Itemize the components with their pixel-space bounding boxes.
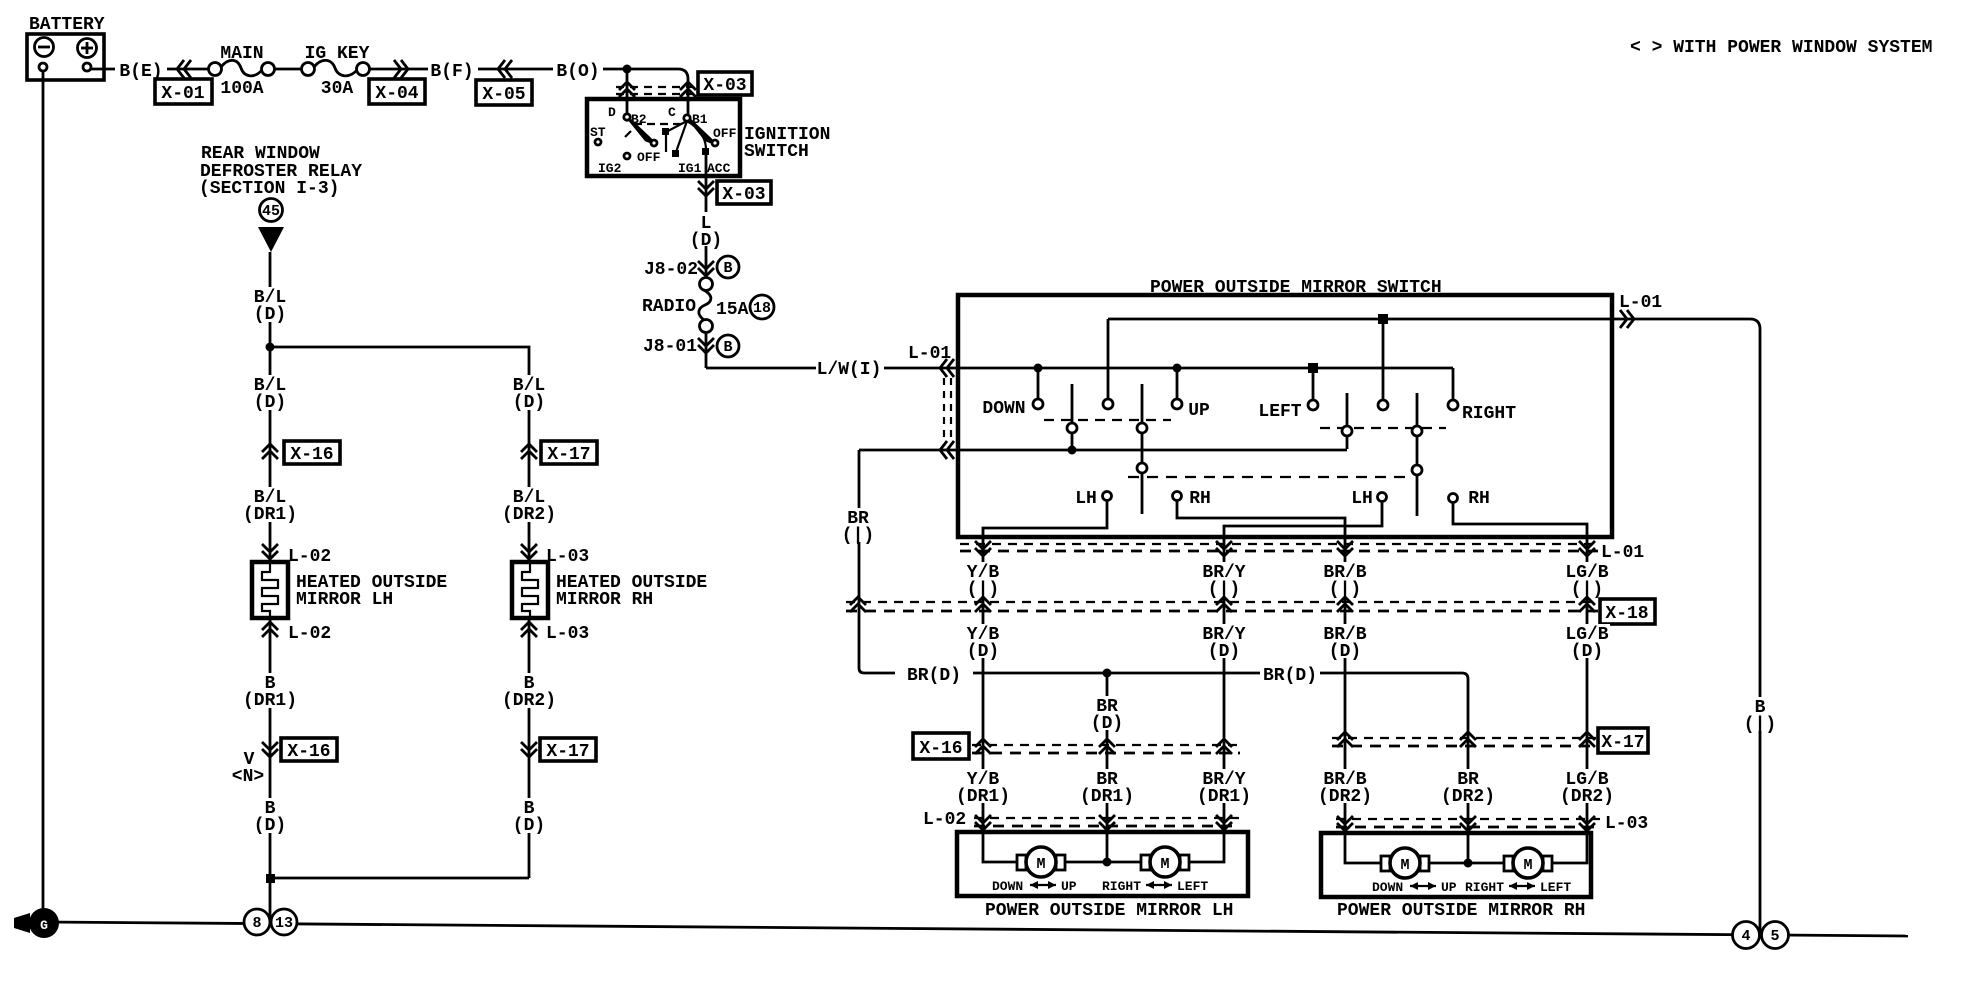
label LG/B (DR2) [1560,769,1615,807]
wire mid contact drop 2 [1382,319,1385,399]
node RH motor junction [1464,859,1473,868]
node ground circle 4 [1733,922,1760,949]
wire B/L left column [269,252,272,562]
svg-text:(|): (|) [1744,715,1776,735]
connector X-18 [846,597,1655,624]
svg-text:LH: LH [1351,489,1373,509]
svg-text:(D): (D) [513,816,545,836]
svg-text:POWER OUTSIDE MIRROR RH: POWER OUTSIDE MIRROR RH [1337,901,1585,921]
svg-text:C: C [668,105,676,120]
svg-text:L/W(I): L/W(I) [817,360,882,380]
svg-text:(DR2): (DR2) [502,691,556,711]
label BR(D) left [895,663,973,686]
label B(F) [428,57,478,82]
svg-text:(DR2): (DR2) [502,505,556,525]
svg-text:MIRROR RH: MIRROR RH [556,590,653,610]
label BR/B (DR2) [1318,769,1373,807]
label LG/B (I) [1565,562,1610,600]
motor M2 RH horizontal [1504,848,1552,878]
svg-text:OFF: OFF [637,150,661,165]
svg-text:100A: 100A [220,79,263,99]
svg-text:BR(D): BR(D) [907,666,961,686]
wire RH1 to BR/B column [1177,500,1381,863]
node LH motor junction [1103,858,1112,867]
selector pole LR-LH [1346,393,1349,449]
connector X-03 bottom [698,181,771,205]
svg-text:POWER OUTSIDE MIRROR LH: POWER OUTSIDE MIRROR LH [985,901,1233,921]
wire ignition D branch [626,69,629,113]
svg-text:(DR2): (DR2) [1441,787,1495,807]
label B/L (D) right [509,375,549,413]
label BR (D) column [1091,696,1123,734]
connector X-03 top [616,72,752,97]
connector X-17 switch side [1332,728,1648,753]
svg-text:MIRROR LH: MIRROR LH [296,590,393,610]
svg-text:L-02: L-02 [288,624,331,644]
svg-text:45: 45 [262,203,280,220]
svg-text:REAR WINDOW: REAR WINDOW [201,144,320,164]
svg-text:(D): (D) [1571,642,1603,662]
svg-text:(D): (D) [690,231,722,251]
svg-text:B(O): B(O) [556,62,599,82]
power outside mirror LH box [957,832,1248,896]
mechanical link left-right [1320,427,1446,429]
label B (DR1) [242,673,298,711]
svg-text:B: B [723,260,732,277]
svg-text:X-17: X-17 [547,445,590,465]
node top feed junction [623,65,632,74]
node top bus junction [1378,314,1388,324]
label B (DR2) [501,673,557,711]
label RIGHT-LEFT LH [1102,879,1208,894]
label L/W(I) [816,357,884,380]
label LG/B (D) [1565,624,1610,662]
power outside mirror RH box [1321,833,1591,897]
node bottom merge junction [266,874,275,883]
node B/L branch junction [266,343,275,352]
rear window defroster relay reference [199,144,362,252]
heated outside mirror LH [252,562,447,618]
svg-text:M: M [1160,856,1169,873]
wire switch top bus to L-01 right exit [1108,319,1760,936]
wire RH2 to LG/B column [1453,502,1587,863]
svg-text:B: B [723,339,732,356]
wire LH motors link [1065,861,1141,864]
wire BR column LH [1106,673,1109,862]
label BR (DR1) [1080,769,1135,807]
label BR (I) [842,508,876,546]
svg-text:X-16: X-16 [919,739,962,759]
wire switch main bus L/W [958,367,1453,370]
node BR(D) junction [1103,669,1112,678]
label BR/Y (DR1) [1197,769,1252,807]
mechanical link LH-RH selector [1128,476,1412,478]
svg-text:X-04: X-04 [375,84,418,104]
svg-text:LEFT: LEFT [1258,402,1301,422]
svg-text:13: 13 [275,915,293,932]
label DOWN-UP LH [992,879,1077,894]
fuse RADIO 15A [642,278,774,333]
wire mid contact drop 1 [1107,319,1110,398]
wire B/L branch to RH column [270,347,529,562]
svg-text:(DR2): (DR2) [1560,787,1614,807]
svg-text:LH: LH [1075,489,1097,509]
svg-text:4: 4 [1741,928,1750,945]
svg-text:X-03: X-03 [722,185,765,205]
svg-text:IG KEY: IG KEY [305,44,370,64]
svg-text:X-01: X-01 [161,84,204,104]
label B (D) left [250,798,290,836]
svg-text:LEFT: LEFT [1177,879,1208,894]
connector X-17 lower [521,738,596,762]
svg-text:L-01: L-01 [1601,543,1644,563]
svg-text:8: 8 [252,915,261,932]
switch contacts upper row [1033,399,1043,409]
svg-text:BATTERY: BATTERY [29,15,105,35]
connector X-05 [476,60,532,105]
svg-text:J8-01: J8-01 [643,337,697,357]
selector pole UD-RH [1141,384,1144,514]
connector X-01 [155,60,212,104]
label BR (DR2) [1441,769,1496,807]
svg-text:(D): (D) [254,393,286,413]
svg-text:SWITCH: SWITCH [744,142,809,162]
svg-text:L-02: L-02 [923,810,966,830]
label B (D) right [509,798,549,836]
wire UP contact drop [1176,368,1179,398]
svg-text:(DR1): (DR1) [243,505,297,525]
label B/L (DR2) [501,487,557,525]
connector L-01 top right [1619,293,1662,328]
svg-text:RH: RH [1468,489,1490,509]
svg-text:BR(D): BR(D) [1263,666,1317,686]
node ground circle 5 [1762,922,1789,949]
node UP junction [1173,364,1182,373]
wire RIGHT contact drop [1452,368,1455,399]
connector X-17 upper [521,441,597,465]
svg-text:OFF: OFF [713,126,737,141]
power outside mirror switch box [958,278,1612,537]
connector L-02 motor side [923,810,1240,830]
fuse MAIN 100A [209,44,275,99]
label BR/B (D) [1323,624,1368,662]
junction block J8-01 [643,335,739,357]
svg-text:(D): (D) [1208,642,1240,662]
connector X-16 upper [262,441,340,465]
svg-text:X-03: X-03 [703,76,746,96]
label B(O) [553,57,603,82]
wire ignition switch output L(D) [705,155,708,368]
label BR/B (I) [1323,562,1368,600]
svg-text:X-16: X-16 [287,742,330,762]
svg-text:RH: RH [1189,489,1211,509]
label B/L (D) left [250,375,290,413]
heated outside mirror RH [512,562,707,618]
label L (D) [690,212,722,251]
svg-text:< > WITH POWER WINDOW SYSTEM: < > WITH POWER WINDOW SYSTEM [1630,38,1932,58]
label B/L (D) upper [250,287,290,325]
svg-text:G: G [40,918,48,933]
svg-text:DOWN: DOWN [992,879,1023,894]
motor M1 LH vertical [1017,847,1065,877]
svg-text:15A: 15A [716,300,749,320]
connector L-03 motor side [1336,814,1648,834]
svg-text:M: M [1400,857,1409,874]
svg-text:UP: UP [1441,880,1457,895]
svg-text:UP: UP [1061,879,1077,894]
svg-text:M: M [1036,856,1045,873]
svg-text:ACC: ACC [707,161,731,176]
svg-text:LEFT: LEFT [1540,880,1571,895]
node ground circle 13 [271,909,297,935]
wire BR(I) feed from switch [859,450,864,673]
connector X-04 [369,60,425,104]
svg-text:18: 18 [753,300,771,317]
svg-text:DOWN: DOWN [982,399,1025,419]
battery B1 [27,15,105,80]
svg-text:RIGHT: RIGHT [1102,879,1141,894]
connector L-01 below switch [960,541,1647,563]
wire BR feed bus [859,449,1347,452]
svg-text:RIGHT: RIGHT [1462,404,1516,424]
svg-text:30A: 30A [321,79,354,99]
svg-text:IG1: IG1 [678,161,702,176]
switch contacts LH RH row [1103,492,1112,501]
svg-text:X-05: X-05 [482,85,525,105]
svg-text:(D): (D) [254,305,286,325]
svg-text:J8-02: J8-02 [644,260,698,280]
svg-text:D: D [608,105,616,120]
svg-text:M: M [1523,857,1532,874]
wire bottom merge to ground [270,878,529,923]
wire LH2 to BR/Y column [1187,501,1382,862]
svg-text:(SECTION I-3): (SECTION I-3) [199,179,339,199]
mechanical link up-down [1044,419,1171,421]
svg-text:5: 5 [1770,928,1779,945]
svg-text:(DR1): (DR1) [1080,787,1134,807]
svg-text:(|): (|) [842,526,874,546]
label Y/B (DR1) [956,769,1011,807]
svg-text:<N>: <N> [232,767,264,787]
label Y/B (D) [967,624,1000,662]
node BR bus junction [1068,446,1077,455]
wire LEFT contact drop [1312,368,1315,399]
selector pole LR-RH [1416,393,1419,516]
svg-text:(DR1): (DR1) [243,691,297,711]
wire LH1 to Y/B column [983,500,1107,862]
node DOWN junction [1034,364,1043,373]
motor M1 RH vertical [1381,848,1429,878]
ignition switch U1 [587,99,830,176]
svg-text:X-17: X-17 [546,742,589,762]
svg-text:X-17: X-17 [1601,733,1644,753]
motor M2 LH horizontal [1141,847,1189,877]
svg-text:(D): (D) [967,642,999,662]
wire battery negative to ground [42,71,45,910]
ground symbol G [14,908,59,938]
svg-text:(D): (D) [254,816,286,836]
svg-text:L-03: L-03 [546,624,589,644]
svg-text:L-02: L-02 [288,547,331,567]
selector pole UD-LH [1071,384,1074,449]
svg-text:X-18: X-18 [1605,604,1648,624]
label B(E) [115,57,167,82]
label Y/B (I) [967,562,1000,600]
connector L-03 lower [521,622,589,644]
label DOWN-UP RH [1372,880,1457,895]
label BR/Y (D) [1202,624,1247,662]
junction block J8-02 [644,256,739,280]
svg-text:(D): (D) [1091,714,1123,734]
svg-text:UP: UP [1188,401,1210,421]
label RIGHT-LEFT RH [1465,880,1571,895]
svg-text:B(F): B(F) [430,62,473,82]
wire BR(D) bus [864,673,1468,863]
ground bus wire [44,922,1908,936]
label BR/Y (I) [1202,562,1247,600]
label B (I) right [1744,697,1776,735]
svg-text:(D): (D) [513,393,545,413]
connector L-02 upper [262,544,331,567]
svg-text:(DR2): (DR2) [1318,787,1372,807]
svg-text:(D): (D) [1329,642,1361,662]
wire battery positive B(E)/B(F)/B(O) top feed [91,69,688,114]
svg-text:L-01: L-01 [1619,293,1662,313]
fuse IG KEY 30A [302,44,370,99]
label B/L (DR1) [242,487,298,525]
svg-text:X-16: X-16 [290,445,333,465]
wire L/W(I) to mirror switch [706,367,958,370]
svg-text:(DR1): (DR1) [1197,787,1251,807]
node ground circle 8 [244,909,270,935]
svg-text:RIGHT: RIGHT [1465,880,1504,895]
connector X-16 switch side [913,733,1240,759]
svg-text:IG2: IG2 [598,161,622,176]
svg-text:RADIO: RADIO [642,297,696,317]
node LEFT junction [1308,363,1318,373]
svg-text:L-03: L-03 [546,547,589,567]
connector L-03 upper [521,544,589,567]
wire RH motors link [1429,862,1504,865]
wire DOWN contact drop [1037,368,1040,398]
svg-text:DOWN: DOWN [1372,880,1403,895]
connector L-01 left entry [908,344,954,459]
svg-text:L-03: L-03 [1605,814,1648,834]
connector X-16 lower with V N note [232,738,337,787]
label BR(D) right [1260,663,1320,686]
connector L-02 lower [262,622,331,644]
svg-text:(DR1): (DR1) [956,787,1010,807]
